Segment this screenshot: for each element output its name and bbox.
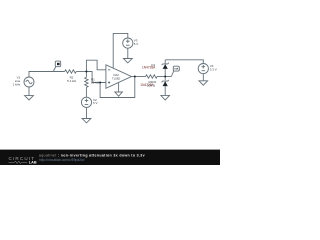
svg-text:1N4728A: 1N4728A — [140, 83, 154, 87]
svg-text:http://circuitlab.com/c/59pa2w: http://circuitlab.com/c/59pa2w/ — [39, 158, 85, 162]
svg-text:1N4728A: 1N4728A — [142, 66, 156, 70]
svg-text:10 kΩ: 10 kΩ — [91, 81, 100, 85]
svg-text:aquatinet : non-inverting atte: aquatinet : non-inverting attenuation 3x… — [39, 153, 145, 157]
svg-text:TL082: TL082 — [112, 77, 120, 81]
svg-text:LAB: LAB — [29, 161, 37, 165]
svg-text:5 V: 5 V — [93, 101, 98, 105]
svg-text:1 kHz: 1 kHz — [13, 82, 21, 86]
svg-text:5 V: 5 V — [134, 42, 139, 46]
svg-text:5.1 kΩ: 5.1 kΩ — [67, 79, 77, 83]
svg-text:3.3 V: 3.3 V — [210, 68, 217, 72]
svg-text:out: out — [174, 67, 178, 71]
